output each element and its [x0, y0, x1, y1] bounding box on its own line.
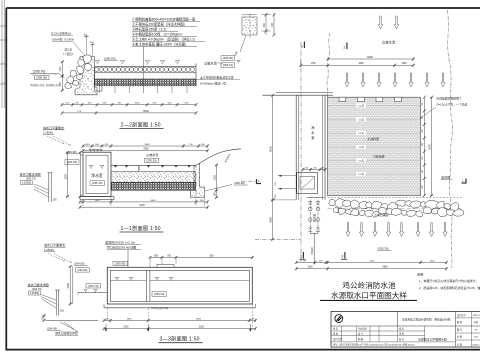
svg-text:D=100上下孔，一个已设: D=100上下孔，一个已设 — [437, 103, 468, 107]
concrete retaining wall (stippled) top drawing — [75, 57, 97, 95]
svg-text:6400: 6400 — [139, 204, 145, 207]
svg-text:1、本图尺寸标高以米计其余尺寸均以毫米计；: 1、本图尺寸标高以米计其余尺寸均以毫米计； — [419, 278, 478, 283]
svg-text:纸: 纸 — [1, 82, 4, 84]
svg-text:6000: 6000 — [268, 146, 272, 152]
plan bottom dim row2 — [295, 267, 448, 271]
small gray notes under water line — [30, 83, 61, 87]
svg-text:6400: 6400 — [143, 149, 149, 151]
drawing name cell — [418, 337, 447, 342]
title 3-3 section — [159, 335, 203, 343]
plan structure top edge double line — [262, 93, 333, 96]
chamber water marks + labels (1-1) — [89, 165, 104, 185]
valve pit square detail in plan — [297, 173, 318, 194]
rock grading labels above pile (2-2) — [51, 31, 86, 56]
right small labels — [457, 313, 480, 347]
far-left vertical dim (1-1) — [64, 151, 69, 198]
right labels 2-2: slope flow + elevations — [204, 56, 240, 67]
svg-text:0=100kg/m²做法一层: 0=100kg/m²做法一层 — [200, 81, 226, 85]
geotextile annotation right (2-2) — [196, 75, 240, 85]
svg-text:(294.70): (294.70) — [32, 287, 42, 291]
horizontal arrow dims left of square — [275, 175, 297, 199]
(295.30) label right chamber — [152, 292, 167, 296]
svg-text:2008.12: 2008.12 — [472, 344, 480, 346]
bottom dim row1 3-3 — [103, 318, 257, 322]
rock pile on slope (2-2) — [65, 55, 92, 89]
svg-text:2、砼采用C25，块石浆砌料石详见设计C25，做蜂: 2、砼采用C25，块石浆砌料石详见设计C25，做蜂 — [419, 285, 480, 290]
svg-text:①碎石层: ①碎石层 — [373, 154, 385, 159]
svg-text:4300: 4300 — [358, 63, 364, 65]
svg-text:(293.70): (293.70) — [88, 284, 98, 288]
top dim total (1-1) — [82, 149, 210, 153]
left vertical dim 1500 (1-1) — [79, 151, 82, 198]
svg-text:(294.70): (294.70) — [26, 176, 36, 180]
svg-text:1000: 1000 — [135, 103, 141, 105]
right vertical dim (1-1) — [213, 164, 218, 200]
svg-text:长200×宽砌块石h: 长200×宽砌块石h — [51, 31, 72, 35]
left water level labels (295.70)/(295.30) — [30, 69, 65, 79]
pipe labels — [312, 214, 316, 222]
svg-text:说明：: 说明： — [417, 271, 426, 276]
main title line2 — [331, 290, 407, 300]
section 1 marker left — [241, 179, 261, 184]
dim above right chamber 3-3 — [149, 255, 254, 267]
section 2 markers top of plan — [301, 42, 304, 49]
dims above square detail — [301, 167, 326, 171]
svg-text:1500: 1500 — [67, 283, 70, 289]
natural ground curve (1-1) — [200, 149, 241, 164]
svg-text:管口标高(295.60)详图: 管口标高(295.60)详图 — [107, 244, 136, 249]
svg-text:嵌砌卵石护面: 嵌砌卵石护面 — [46, 83, 61, 87]
note block (layer spec, 6 lines) top drawing — [132, 16, 205, 46]
plan top segment dims — [299, 59, 415, 67]
inlet openings on top edge — [339, 97, 346, 101]
svg-text:山坡水流: 山坡水流 — [204, 60, 218, 65]
leader from note block down to bedding — [143, 47, 145, 94]
clean-water chamber box (1-1) — [83, 152, 111, 196]
plan centreline (vertical dash-dot) — [300, 42, 302, 263]
svg-text:室: 室 — [311, 135, 314, 140]
flow arrows below rock apron — [346, 223, 447, 237]
cushion note under tank — [151, 306, 169, 310]
filter labels — [367, 136, 379, 141]
svg-text:(295.30): (295.30) — [146, 159, 156, 163]
address row — [333, 343, 415, 347]
svg-text:浆砌块石挡墙: 浆砌块石挡墙 — [30, 83, 45, 87]
plan bottom boundary dash-dot — [255, 239, 301, 241]
svg-text:(294.60): (294.60) — [67, 160, 77, 164]
water-level nabla marks above bedding (2-2) — [95, 61, 179, 65]
svg-text:山坡水流: 山坡水流 — [146, 152, 158, 157]
title 2-2 section — [120, 121, 164, 129]
dark gravel/geotextile band (2-2) — [95, 79, 197, 86]
tank footing 3-3 — [104, 304, 255, 308]
svg-text:2—2剖面图 1:50: 2—2剖面图 1:50 — [121, 121, 161, 129]
stream bank wavy line right — [448, 10, 453, 268]
svg-text:350: 350 — [213, 192, 216, 197]
svg-text:①预制砼盖板600×400×100@铺砌顶面一层: ①预制砼盖板600×400×100@铺砌顶面一层 — [132, 16, 196, 21]
plan right vertical total 5000 — [428, 96, 433, 197]
rock apron band in plan — [328, 197, 464, 217]
svg-text:进水口底做法详图: 进水口底做法详图 — [55, 331, 78, 335]
svg-text:(295.10): (295.10) — [92, 181, 102, 185]
svg-text:5400: 5400 — [367, 56, 373, 59]
svg-text:1700: 1700 — [310, 63, 316, 65]
svg-text:鸡公岭消防水池: 鸡公岭消防水池 — [342, 280, 396, 290]
right annotation (reserved holes) — [420, 97, 468, 119]
svg-text:《下面层》: 《下面层》 — [62, 52, 75, 56]
svg-text:2000: 2000 — [269, 217, 272, 223]
svg-text:④中粗砂垫层100厚 （C=100g/m²）: ④中粗砂垫层100厚 （C=100g/m²） — [132, 31, 185, 36]
section 3 markers bottom of plan — [300, 252, 306, 259]
water levels left chamber 3-3 — [110, 277, 146, 280]
(295.30) right toe label (1-1) — [205, 181, 248, 191]
svg-text:5000: 5000 — [143, 109, 149, 113]
logo — [335, 315, 343, 323]
right end concrete wall (1-1) — [190, 163, 204, 197]
flow arrows row above weir — [345, 73, 445, 87]
svg-text:③碎石垫层150厚（1:2）: ③碎石垫层150厚（1:2） — [132, 26, 168, 31]
label slope flow top — [382, 40, 396, 45]
svg-text:1200: 1200 — [213, 175, 216, 181]
svg-text:3600: 3600 — [145, 144, 151, 146]
dim total 5000 (2-2) — [61, 109, 198, 115]
vertical dim left of rock slope — [60, 60, 64, 92]
svg-text:(296.10): (296.10) — [223, 63, 233, 67]
(295.90) tank top elevation — [113, 261, 128, 265]
chamber footing (1-1) — [80, 197, 114, 200]
svg-text:1:25(50): 1:25(50) — [43, 130, 53, 134]
plan bottom dim row1 — [295, 260, 448, 264]
svg-text:水源取水口平面图大样: 水源取水口平面图大样 — [418, 337, 447, 342]
svg-text:某某市政工程设计研究院 西南设计分院: 某某市政工程设计研究院 西南设计分院 — [402, 317, 451, 321]
svg-text:水源取水口平面图大样: 水源取水口平面图大样 — [331, 290, 407, 300]
inlet note + pipe bar (left 3-3) — [28, 282, 65, 316]
svg-text:(296.50): (296.50) — [104, 57, 116, 61]
svg-text:(295.30): (295.30) — [36, 76, 47, 80]
svg-text:进水口做法详图: 进水口做法详图 — [28, 282, 49, 287]
svg-text:取水管: 取水管 — [312, 214, 316, 222]
bottom dim row2 3-3 — [103, 327, 257, 331]
filter media area (hatched) — [328, 97, 421, 195]
company name — [402, 317, 451, 321]
water levels right chamber 3-3 — [150, 277, 249, 280]
plan right vertical dim (segments) — [422, 96, 426, 197]
inlet bottom line + dims (left 3-3) — [42, 314, 98, 335]
left outside water level 3-3 — [78, 284, 107, 295]
notes block — [417, 271, 480, 289]
svg-text:1300: 1300 — [401, 63, 407, 65]
svg-text:②干砌块石200厚垫层（详见大样图）: ②干砌块石200厚垫层（详见大样图） — [132, 21, 187, 26]
svg-text:1:25(50): 1:25(50) — [22, 182, 31, 185]
svg-text:100: 100 — [53, 198, 58, 201]
divider wall 3-3 — [146, 270, 150, 301]
small down arrows 3-3 — [105, 324, 108, 332]
left elevation labels (1-1) — [65, 150, 83, 164]
svg-text:4950: 4950 — [196, 318, 202, 320]
left small labels — [333, 327, 405, 341]
svg-text:1:25(50): 1:25(50) — [44, 248, 54, 252]
sheet margin thin lines — [0, 0, 6, 108]
svg-text:2: 2 — [301, 45, 303, 49]
note: inlet plan method (upper left 1-1) — [43, 125, 71, 146]
svg-text:进水口平面做法: 进水口平面做法 — [44, 242, 65, 247]
svg-text:(295.30): (295.30) — [378, 246, 389, 250]
labels above ground (1-1) — [145, 152, 159, 162]
note: inlet plan method (upper left 3-3) — [44, 242, 72, 263]
svg-text:1400: 1400 — [95, 200, 101, 202]
svg-text:②滤料层: ②滤料层 — [367, 136, 379, 141]
small detail vertical dims — [262, 13, 276, 37]
svg-text:(295.90): (295.90) — [115, 262, 125, 266]
tank outer/inner walls 3-3 — [107, 267, 252, 304]
svg-text:溢流堰: 溢流堰 — [441, 174, 450, 179]
plan chamber walls (vertical) — [296, 95, 325, 200]
light filter layer between courses (2-2) — [95, 72, 197, 79]
svg-text:(296.30): (296.30) — [223, 56, 233, 60]
weir label — [441, 174, 453, 179]
section 1 marker right — [462, 178, 467, 183]
svg-text:50%平砌「0.5平06: 50%平砌「0.5平06 — [52, 37, 75, 41]
dashed projection lines below tank 3-3 — [107, 304, 252, 331]
left step + end lines of bedding (2-2) — [95, 64, 197, 92]
ground line right of chamber (1-1) — [111, 164, 196, 166]
(295.30) downstream level — [378, 246, 392, 250]
svg-text:1000: 1000 — [307, 267, 313, 269]
plan top total dim 5400 — [326, 56, 414, 61]
svg-text:1500: 1500 — [64, 174, 67, 180]
svg-text:(294.45): (294.45) — [47, 326, 57, 330]
svg-text:1000: 1000 — [60, 66, 62, 72]
mini dims above wall (2-2) — [84, 34, 96, 56]
svg-text:5000: 5000 — [370, 260, 376, 262]
stream bank wavy line left — [327, 33, 330, 97]
svg-text:土工布包碎石做反滤层之类: 土工布包碎石做反滤层之类 — [200, 75, 234, 79]
svg-text:(295.30): (295.30) — [154, 292, 164, 296]
svg-text:(295.30): (295.30) — [234, 181, 245, 185]
top dim line (1-1) — [82, 144, 210, 148]
svg-text:5200: 5200 — [199, 327, 205, 329]
svg-text:山坡水流: 山坡水流 — [382, 40, 396, 45]
title block outer — [331, 311, 480, 347]
dark gravel band (1-1) — [111, 183, 196, 191]
svg-text:⑥素土夯实基底,碾压 ≥93%（详见图）: ⑥素土夯实基底,碾压 ≥93%（详见图） — [132, 41, 188, 46]
pebble course (circles row) 2-2 — [95, 67, 197, 73]
svg-text:图: 图 — [1, 62, 4, 64]
svg-text:砼顶板面需预留两个: 砼顶板面需预留两个 — [437, 97, 462, 101]
title block vertical lines — [342, 311, 472, 347]
top flow arrows — [378, 16, 398, 29]
small inlet detail near top border — [233, 14, 257, 57]
svg-text:4400: 4400 — [151, 200, 157, 202]
pipes merge + outlet line — [310, 234, 318, 265]
sand bedding layer (1-1) — [111, 172, 196, 183]
svg-text:(295.70): (295.70) — [33, 69, 45, 73]
main title line1 — [342, 280, 396, 290]
svg-text:温石灰: 温石灰 — [65, 48, 73, 52]
rock apron label — [374, 212, 389, 217]
svg-text:3—3剖面图 1:50: 3—3剖面图 1:50 — [160, 335, 200, 343]
title block horizontal lines — [331, 318, 480, 342]
plan left vertical dims — [268, 94, 274, 202]
left elevation labels 3-3 — [73, 261, 90, 304]
dim line row 1 (2-2) — [61, 103, 198, 107]
svg-text:1100: 1100 — [272, 22, 274, 28]
svg-text:⑤土工布0.4-0.5kg/m² （反滤层）（详见1:1）: ⑤土工布0.4-0.5kg/m² （反滤层）（详见1:1） — [132, 36, 197, 41]
top annotation (overflow pipe) 3-3 — [105, 239, 141, 267]
elevation (296.50) — [104, 57, 118, 61]
chamber bottom edge line — [307, 197, 324, 199]
filter layer division lines + labels — [328, 103, 420, 107]
svg-text:(294.60): (294.60) — [77, 268, 87, 272]
svg-text:DN100: DN100 — [311, 247, 314, 255]
svg-text:5950: 5950 — [382, 267, 388, 269]
svg-text:(294.90): (294.90) — [74, 261, 84, 265]
svg-text:2: 2 — [344, 46, 346, 50]
svg-text:1800: 1800 — [127, 318, 133, 320]
left vertical dim 1500 3-3 — [67, 265, 72, 306]
bottom dim rows (1-1) — [83, 191, 205, 207]
intake pipes in plan — [308, 200, 312, 234]
inlet fixture on top of chamber (1-1) — [89, 149, 103, 152]
svg-text:1300: 1300 — [430, 260, 436, 262]
svg-text:1—1剖面图 1:50: 1—1剖面图 1:50 — [121, 224, 161, 232]
svg-text:200: 200 — [60, 310, 65, 313]
solid nabla marks on ground (1-1) — [114, 166, 191, 168]
svg-text:2300: 2300 — [123, 327, 129, 329]
svg-text:净水室: 净水室 — [91, 173, 103, 178]
svg-text:3: 3 — [300, 255, 302, 259]
svg-text:1:25(50): 1:25(50) — [30, 292, 39, 295]
svg-text:进水口做法详图: 进水口做法详图 — [20, 171, 41, 176]
svg-text:溢流管DN150 L=2.0m: 溢流管DN150 L=2.0m — [105, 239, 136, 244]
extension legs below bedding (2-2) — [99, 86, 187, 93]
svg-text:3: 3 — [342, 255, 344, 259]
svg-text:进水口平面做法: 进水口平面做法 — [43, 125, 64, 130]
svg-text:5000: 5000 — [428, 144, 431, 150]
note: inlet detail w/ pipe bar (left 1-1) — [20, 171, 58, 202]
access notch on tank top 3-3 — [157, 264, 174, 267]
title underline — [320, 299, 417, 301]
small tick dim (1-1) — [139, 165, 141, 171]
title 1-1 section — [120, 224, 164, 232]
label clean water chamber (vertical) — [311, 125, 315, 140]
svg-text:①块石铺底: ①块石铺底 — [374, 212, 389, 217]
svg-text:MW1-204: MW1-204 — [473, 315, 480, 317]
